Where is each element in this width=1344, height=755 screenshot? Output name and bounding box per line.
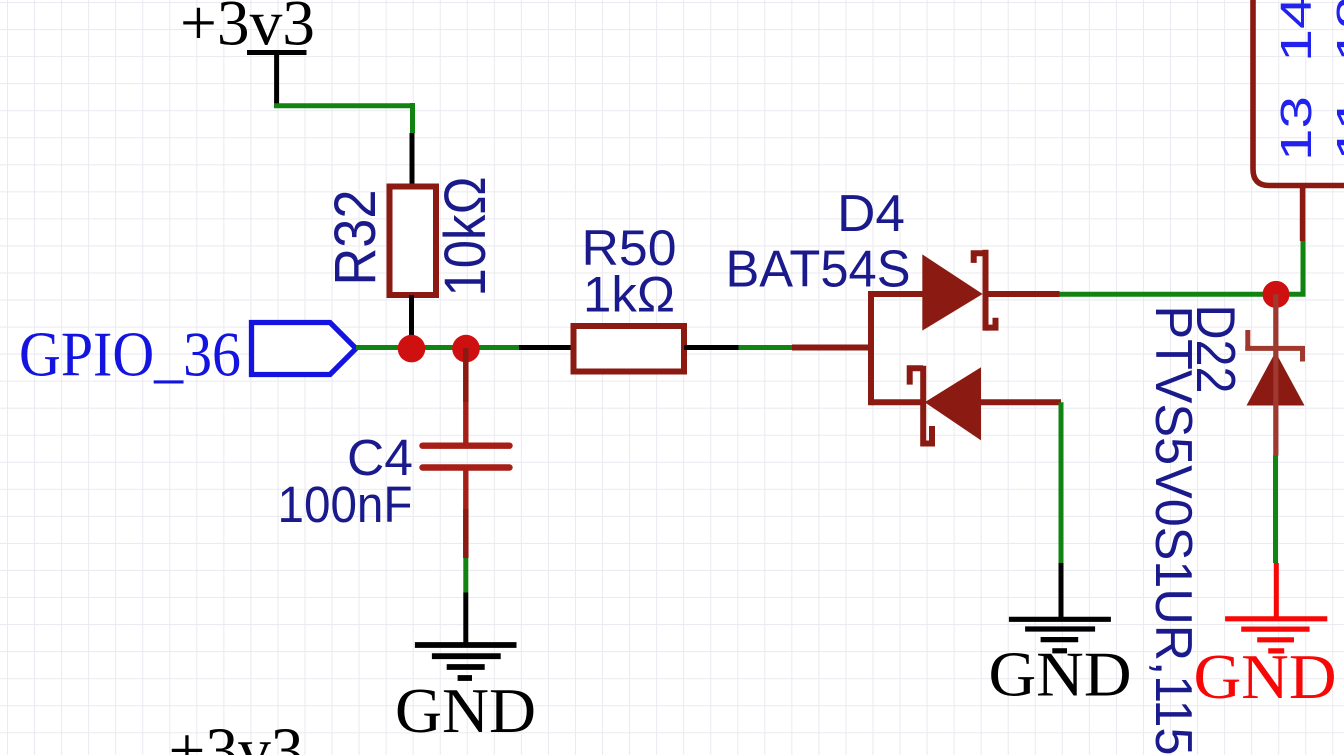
svg-text:12: 12 — [1328, 0, 1344, 62]
svg-text:1kΩ: 1kΩ — [583, 267, 675, 323]
svg-text:R32: R32 — [323, 190, 388, 286]
svg-text:13: 13 — [1272, 96, 1321, 161]
svg-text:11: 11 — [1328, 96, 1344, 161]
svg-text:100nF: 100nF — [278, 476, 413, 533]
svg-text:10kΩ: 10kΩ — [433, 177, 498, 297]
svg-text:+3v3: +3v3 — [169, 715, 304, 755]
svg-text:GPIO_36: GPIO_36 — [19, 319, 241, 390]
svg-text:PTVS5V0S1UR,115: PTVS5V0S1UR,115 — [1144, 306, 1202, 755]
svg-text:GND: GND — [989, 639, 1132, 710]
svg-text:GND: GND — [395, 675, 536, 746]
svg-text:14: 14 — [1272, 0, 1321, 62]
svg-text:BAT54S: BAT54S — [726, 241, 911, 299]
svg-text:GND: GND — [1194, 641, 1337, 712]
svg-text:D4: D4 — [837, 185, 905, 243]
